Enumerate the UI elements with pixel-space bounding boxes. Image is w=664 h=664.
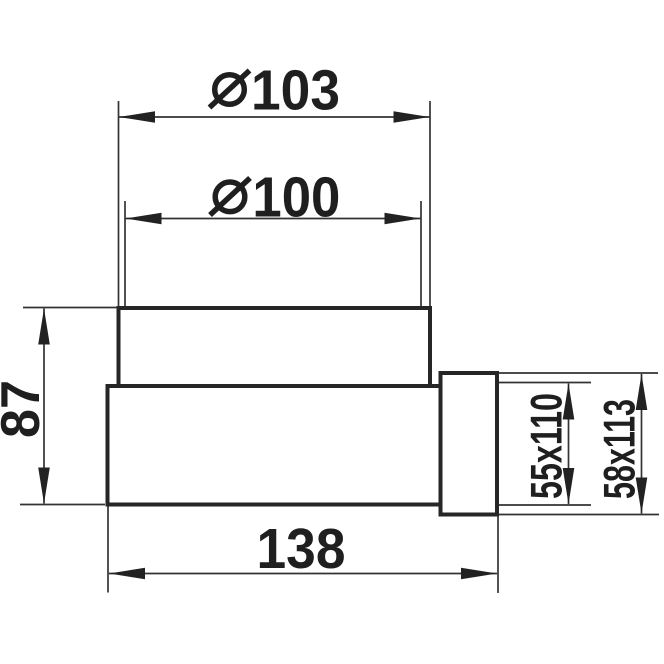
extension line 87 bottom: [20, 504, 105, 506]
extension line Ø100 right: [420, 201, 422, 306]
arrowhead 138 left: [109, 568, 145, 580]
extension line 87 top: [23, 307, 117, 309]
arrowhead 58x113 bottom: [636, 478, 648, 514]
collar outline (top spigot): [119, 308, 431, 386]
flange outline (right connector): [441, 373, 498, 515]
diameter symbol of Ø100: [210, 178, 250, 215]
extension line 138 left: [107, 507, 109, 593]
arrowhead 58x113 top: [636, 374, 648, 410]
extension line Ø103 left: [118, 101, 120, 306]
arrowhead Ø100 right: [385, 213, 421, 225]
svg-text:87: 87: [0, 380, 51, 438]
arrowhead Ø103 right: [394, 111, 430, 123]
dimension line 58x113: [641, 374, 643, 514]
svg-text:55x110: 55x110: [523, 393, 572, 499]
extension line 55x110 top: [499, 382, 591, 384]
diameter symbol of Ø103: [210, 71, 250, 108]
dimension line Ø100: [126, 218, 421, 220]
arrowhead 55x110 bottom: [563, 468, 575, 504]
body outline (main housing): [108, 386, 441, 505]
extension line 58x113 bottom: [499, 514, 659, 516]
dimension line Ø103: [119, 116, 430, 118]
svg-text:58x113: 58x113: [596, 399, 645, 499]
arrowhead 55x110 top: [563, 384, 575, 420]
dimension line 55x110: [568, 384, 570, 505]
dimension line 87: [43, 309, 45, 504]
arrowhead 87 bottom: [38, 468, 50, 504]
extension line Ø103 right: [429, 101, 431, 306]
svg-text:100: 100: [252, 166, 340, 230]
extension line 55x110 bottom: [499, 504, 591, 506]
arrowhead 87 top: [38, 309, 50, 345]
extension line 58x113 top: [499, 372, 658, 374]
arrowhead Ø103 left: [119, 111, 155, 123]
svg-text:138: 138: [257, 517, 346, 581]
arrowhead Ø100 left: [126, 213, 162, 225]
svg-text:103: 103: [251, 59, 340, 123]
extension line Ø100 left: [124, 201, 126, 306]
dimension line 138: [109, 573, 497, 575]
extension line 138 right: [497, 517, 499, 594]
arrowhead 138 right: [461, 568, 497, 580]
